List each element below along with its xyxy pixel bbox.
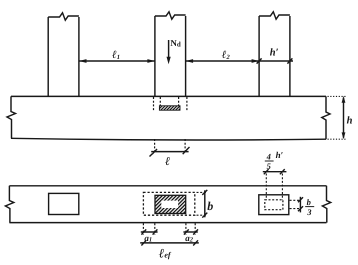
label fraction b/3 right of plan column 3 [305,197,314,217]
svg-text:h′: h′ [270,48,279,59]
label fraction 4/5 h' above plan [265,150,284,171]
load arrow Nd on column 2 [167,40,171,64]
pocket inner dashed lines [159,97,161,106]
column 3 (elevation) top edge with break symbol [259,12,290,19]
foundation strip (elevation) left end with break [7,96,16,138]
dimension a2 with ticks [183,229,198,234]
dimension h' across column 3 with oblique ticks [257,58,293,63]
svg-text:3: 3 [306,207,312,217]
pocket for column 3 (plan, dashed) [265,200,283,210]
dimension line l under strip with oblique ticks [150,147,190,157]
dashed extension lines below strip for dimension l [154,139,156,151]
dimension line l2 between column 2 and column 3 [186,59,260,63]
column 3 (elevation) left side [258,16,260,96]
svg-text:Nd: Nd [170,38,181,49]
column 2 cross-section (plan, hatched) [155,195,186,213]
dimension a1 with ticks [141,229,158,234]
extension dashes for b dimension [197,191,208,193]
white window inside hatched section [161,201,178,208]
column 3 (elevation) right side [289,16,291,96]
svg-text:5: 5 [267,161,272,171]
svg-text:h′: h′ [276,150,284,160]
extension dashes for b/3 dimension [290,199,300,201]
dashed extension lines below plan strip for a1 a2 lef [142,223,144,235]
svg-text:a2: a2 [185,233,194,244]
svg-text:b: b [307,197,311,207]
column 3 cross-section (plan) [259,195,289,215]
column 1 cross-section (plan) [49,193,79,214]
svg-text:h: h [347,116,353,127]
pocket in strip under column 2 : outer dashed walls [153,97,155,110]
svg-text:b: b [207,199,213,213]
column 1 (elevation) left side [47,17,49,96]
svg-text:4: 4 [266,152,271,162]
svg-text:ℓ: ℓ [165,154,170,168]
column 2 (elevation) left side [154,16,156,96]
dashed extension lines up from pocket 3 for h' dimension [265,174,267,200]
foundation strip (elevation) top edge [11,95,326,97]
dimension line b/3 (vertical) with ticks [298,197,303,213]
hatched mortar band at pocket bottom [159,106,180,110]
svg-text:ℓ1: ℓ1 [112,49,120,61]
foundation strip (elevation) bottom edge [11,138,326,140]
strip (plan) left end with break [5,186,13,223]
column 2 (elevation) right side [185,16,187,96]
foundation strip (elevation) right end with break [322,96,330,139]
dimension line l1 between column 1 and column 2 [79,59,155,63]
strip (plan) bottom edge [9,222,326,224]
svg-text:ℓef: ℓef [159,246,172,261]
dimension lef with ticks [140,240,199,245]
strip (plan) top edge [9,185,326,187]
svg-text:a1: a1 [144,233,152,244]
dimension h' above plan with ticks [263,169,287,174]
column 1 (elevation) right side [78,17,80,96]
dotted extension lines for h dimension at right end [328,95,348,97]
dimension line h (vertical, right) [342,96,346,139]
pocket opening (plan, dashed) [143,192,194,215]
column 1 (elevation) top edge with break symbol [48,13,79,20]
svg-text:ℓ2: ℓ2 [222,49,231,61]
column 2 (elevation) top edge with break symbol [155,12,186,19]
strip (plan) right end with break [322,186,330,223]
dimension line b (vertical) with ticks [202,190,207,218]
